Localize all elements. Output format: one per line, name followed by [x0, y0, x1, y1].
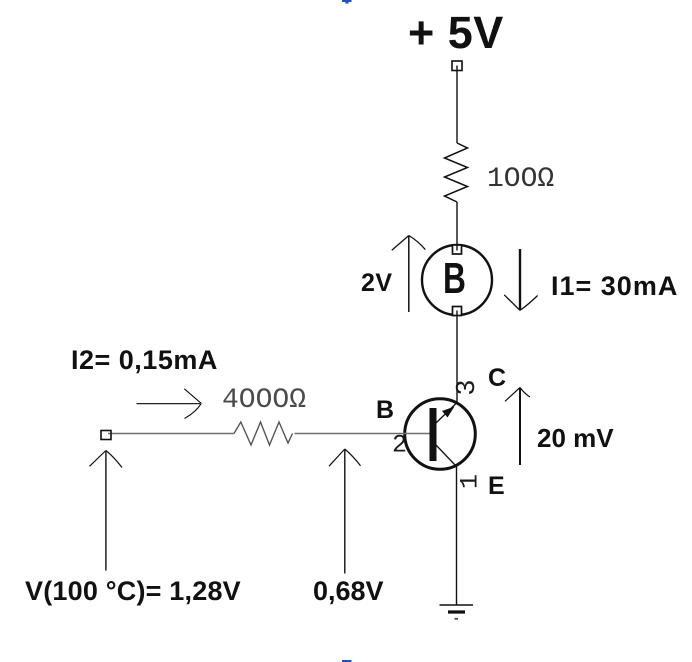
svg-text:3: 3	[453, 379, 483, 395]
svg-text:2: 2	[392, 431, 407, 460]
svg-text:1: 1	[456, 474, 485, 489]
